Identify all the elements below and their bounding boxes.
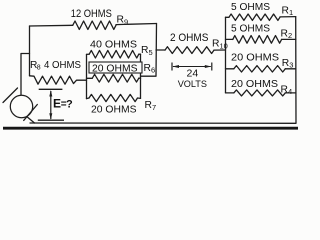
svg-text:VOLTS: VOLTS [178, 79, 207, 90]
svg-text:8: 8 [37, 65, 41, 72]
svg-text:?: ? [66, 99, 73, 111]
svg-text:R6: R6 [144, 63, 156, 75]
svg-text:20 OHMS: 20 OHMS [231, 52, 279, 63]
svg-text:R1: R1 [282, 5, 294, 17]
svg-text:20 OHMS: 20 OHMS [92, 64, 138, 75]
svg-text:40 OHMS: 40 OHMS [90, 40, 137, 51]
svg-text:12 OHMS: 12 OHMS [71, 8, 112, 20]
svg-text:20 OHMS: 20 OHMS [91, 104, 137, 115]
svg-text:R7: R7 [145, 100, 157, 112]
svg-text:24: 24 [187, 67, 199, 79]
svg-text:R2: R2 [281, 28, 293, 40]
svg-text:R5: R5 [141, 45, 153, 57]
svg-text:R4: R4 [281, 84, 293, 96]
svg-text:20 OHMS: 20 OHMS [231, 79, 278, 90]
svg-text:R3: R3 [282, 58, 294, 70]
svg-text:5 OHMS: 5 OHMS [231, 2, 270, 13]
svg-text:4 OHMS: 4 OHMS [44, 60, 81, 71]
svg-text:5 OHMS: 5 OHMS [231, 24, 270, 35]
svg-text:2 OHMS: 2 OHMS [170, 32, 209, 44]
svg-text:R9: R9 [117, 15, 129, 27]
